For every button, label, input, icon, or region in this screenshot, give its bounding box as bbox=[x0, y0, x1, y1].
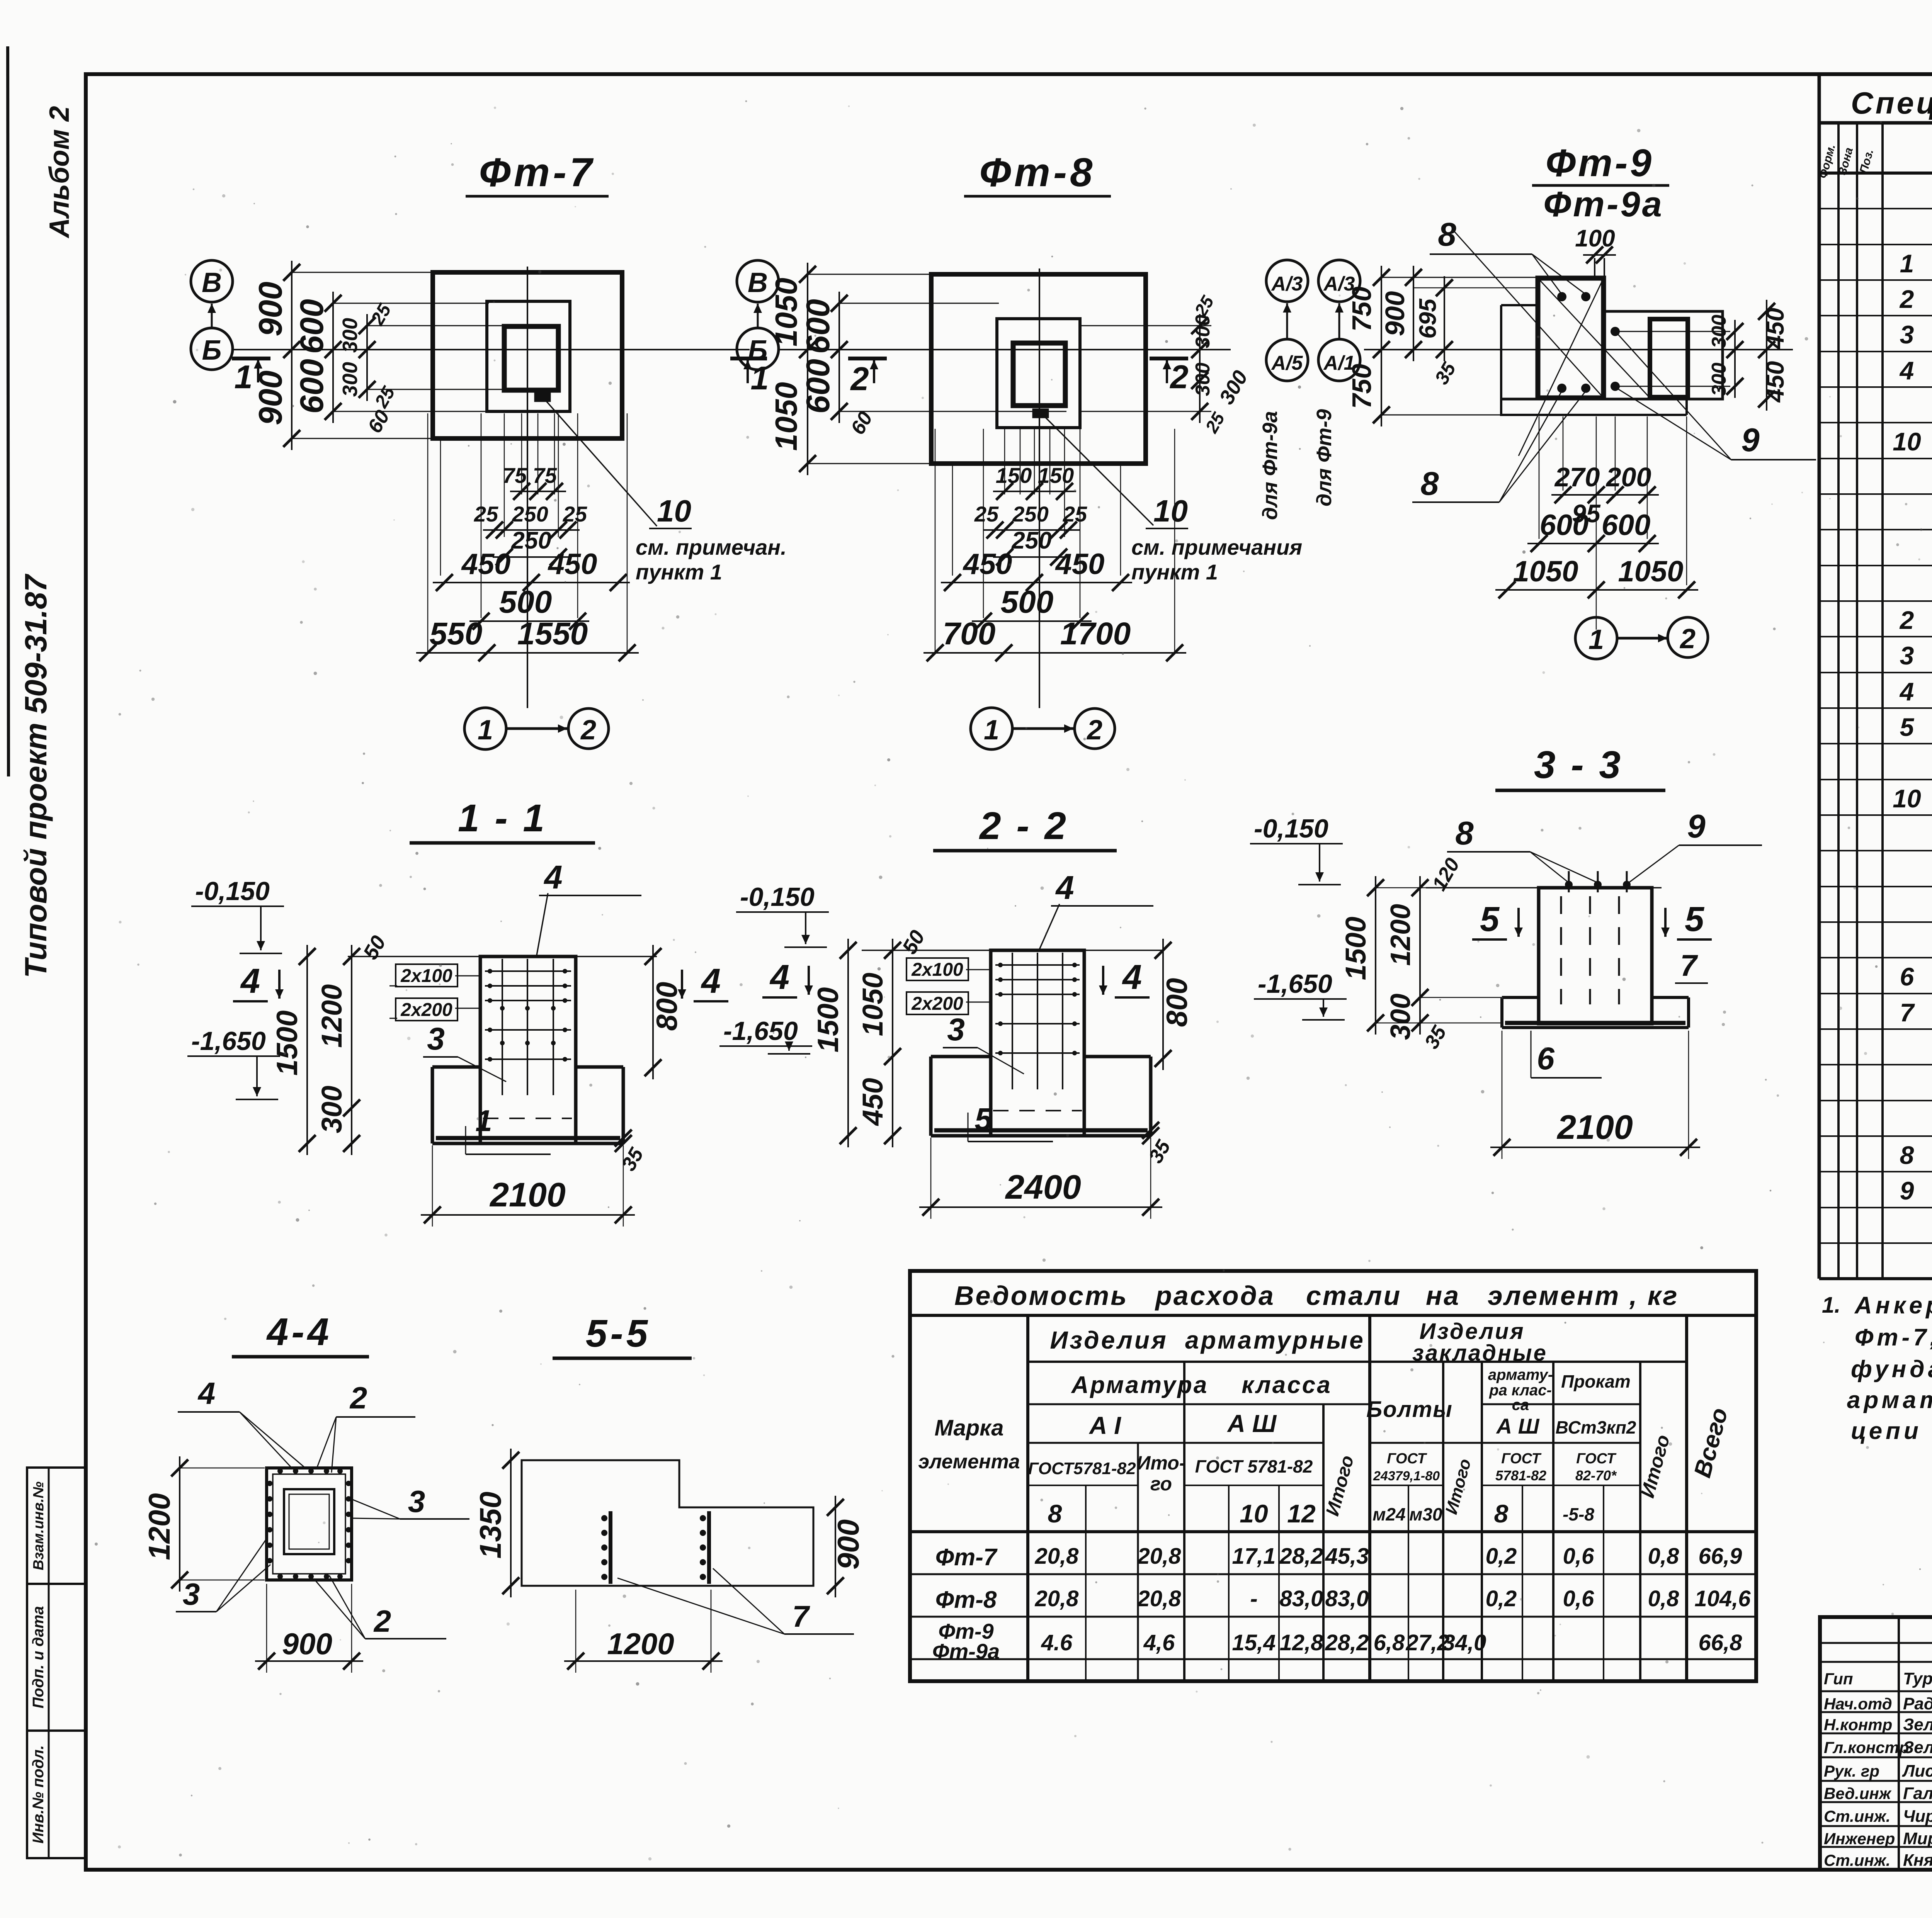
svg-text:армату-: армату- bbox=[1488, 1366, 1553, 1383]
svg-text:4: 4 bbox=[1122, 958, 1142, 997]
svg-text:1200: 1200 bbox=[607, 1627, 674, 1661]
svg-text:Фт-7: Фт-7 bbox=[479, 150, 595, 195]
svg-text:1: 1 bbox=[475, 1104, 492, 1138]
svg-text:-1,650: -1,650 bbox=[1258, 969, 1332, 999]
svg-text:Ст.инж.: Ст.инж. bbox=[1824, 1851, 1890, 1869]
svg-text:Фт-9а: Фт-9а bbox=[932, 1639, 1000, 1663]
svg-text:900: 900 bbox=[252, 282, 289, 336]
svg-text:3: 3 bbox=[947, 1012, 965, 1047]
svg-text:750: 750 bbox=[1347, 364, 1377, 409]
svg-text:Зеленский: Зеленский bbox=[1903, 1738, 1932, 1757]
5-5 outline step bbox=[522, 1460, 813, 1586]
svg-text:500: 500 bbox=[1001, 584, 1054, 620]
svg-text:10: 10 bbox=[1240, 1499, 1268, 1528]
svg-text:2: 2 bbox=[1679, 623, 1696, 654]
svg-text:1050: 1050 bbox=[769, 382, 803, 451]
svg-text:25: 25 bbox=[1063, 502, 1087, 526]
svg-text:Фт-8: Фт-8 bbox=[935, 1587, 997, 1613]
svg-text:4,6: 4,6 bbox=[1143, 1630, 1175, 1655]
svg-text:2100: 2100 bbox=[489, 1176, 566, 1214]
svg-text:3: 3 bbox=[1900, 320, 1914, 349]
svg-text:Н.контр: Н.контр bbox=[1824, 1716, 1892, 1734]
svg-text:А I: А I bbox=[1088, 1412, 1121, 1439]
Фт-7 section mark 1 right bbox=[730, 357, 767, 360]
svg-text:4: 4 bbox=[1899, 356, 1914, 385]
svg-text:3: 3 bbox=[408, 1484, 425, 1519]
svg-text:2400: 2400 bbox=[1005, 1168, 1081, 1206]
1-1 column outline bbox=[480, 956, 576, 1143]
svg-text:1050: 1050 bbox=[1513, 555, 1578, 588]
3-3 pedestal outline bbox=[1539, 888, 1652, 1024]
scan left edge artifact bbox=[8, 46, 9, 776]
svg-text:Инженер: Инженер bbox=[1824, 1830, 1895, 1848]
svg-text:пункт 1: пункт 1 bbox=[636, 560, 722, 584]
4-4 dim 1200 bbox=[180, 1468, 265, 1469]
svg-text:Подп. и дата: Подп. и дата bbox=[30, 1606, 47, 1709]
svg-text:5: 5 bbox=[1480, 900, 1500, 939]
Фт-7 axis arrow Б to В bbox=[211, 304, 213, 329]
Фт-9 axis circles А/3 А/3 bbox=[1266, 260, 1308, 302]
svg-text:Фт-8: Фт-8 bbox=[980, 150, 1096, 195]
svg-text:17,1: 17,1 bbox=[1232, 1544, 1276, 1569]
svg-text:7: 7 bbox=[1680, 948, 1698, 982]
svg-text:2: 2 bbox=[349, 1381, 367, 1415]
svg-text:ГОСТ: ГОСТ bbox=[1387, 1451, 1427, 1467]
svg-text:4: 4 bbox=[543, 859, 562, 896]
svg-text:250: 250 bbox=[511, 527, 551, 554]
svg-text:7: 7 bbox=[1900, 998, 1915, 1027]
svg-text:2х200: 2х200 bbox=[400, 1000, 452, 1020]
Фт-7 dim 550/1550 bbox=[416, 652, 639, 654]
svg-text:8: 8 bbox=[1900, 1141, 1914, 1169]
5-5 dim 1200 bbox=[575, 1590, 577, 1673]
svg-text:1: 1 bbox=[1588, 624, 1604, 655]
Фт-8 axis arrow bbox=[757, 304, 759, 329]
Фт-8 dim 700/1700 bbox=[923, 652, 1186, 654]
Фт-7 horizontal axis line bbox=[232, 349, 750, 350]
svg-text:1500: 1500 bbox=[1340, 917, 1372, 980]
svg-text:пункт 1: пункт 1 bbox=[1131, 560, 1218, 584]
1-1 left dim 1500 bbox=[306, 945, 308, 1155]
svg-text:фундамента, вертикальную арма: фундамента, вертикальную арматуру привар… bbox=[1851, 1356, 1932, 1383]
svg-text:2: 2 bbox=[580, 715, 596, 746]
2-2 left dim 1500 bbox=[847, 939, 849, 1147]
svg-text:1200: 1200 bbox=[1385, 904, 1416, 966]
svg-text:А Ш: А Ш bbox=[1496, 1414, 1540, 1438]
svg-text:Гл.констр: Гл.констр bbox=[1824, 1738, 1909, 1757]
svg-text:расхода: расхода bbox=[1155, 1281, 1275, 1311]
svg-text:300: 300 bbox=[1708, 363, 1730, 396]
svg-text:8: 8 bbox=[1494, 1499, 1509, 1528]
5-5 dim 900 right bbox=[835, 1496, 836, 1597]
svg-text:Зеленский: Зеленский bbox=[1903, 1715, 1932, 1734]
1-1 top level line bbox=[348, 956, 657, 957]
Фт-9 view circles 1-2 bbox=[1575, 617, 1617, 659]
2-2 footing dashed mesh line bbox=[993, 1110, 1082, 1111]
svg-text:В: В bbox=[748, 267, 768, 298]
svg-text:класса: класса bbox=[1242, 1372, 1332, 1398]
svg-text:закладные: закладные bbox=[1412, 1340, 1548, 1366]
5-5 rebar bar 2 bbox=[707, 1511, 711, 1584]
svg-text:900: 900 bbox=[831, 1519, 865, 1570]
svg-text:Княжицкая: Княжицкая bbox=[1903, 1851, 1932, 1870]
svg-text:10: 10 bbox=[657, 494, 691, 528]
svg-text:9: 9 bbox=[1741, 422, 1759, 459]
2-2 leader 4 top bbox=[1039, 904, 1060, 951]
svg-text:300: 300 bbox=[1708, 315, 1730, 348]
svg-text:2100: 2100 bbox=[1556, 1108, 1633, 1146]
svg-text:Мирошниченко: Мирошниченко bbox=[1903, 1829, 1932, 1848]
Фт-8 embedded plate МИ1-11 bbox=[1033, 409, 1048, 417]
svg-text:3 - 3: 3 - 3 bbox=[1534, 743, 1623, 787]
svg-text:см. примечания: см. примечания bbox=[1131, 535, 1302, 559]
2-2 footing base heavy line bbox=[934, 1128, 1148, 1133]
svg-text:4: 4 bbox=[197, 1376, 216, 1410]
2-2 top level line bbox=[862, 950, 1163, 951]
Фт-9 axis arrows bbox=[1286, 303, 1288, 340]
svg-text:-0,150: -0,150 bbox=[740, 882, 815, 912]
svg-text:0,8: 0,8 bbox=[1648, 1586, 1679, 1611]
Фт-8 horizontal axis line bbox=[779, 349, 1231, 350]
Фт-7 dim 25/250/25 bbox=[483, 529, 580, 531]
svg-text:м30: м30 bbox=[1409, 1504, 1442, 1524]
Фт-9 horizontal axis line bbox=[1364, 349, 1793, 350]
svg-text:1: 1 bbox=[478, 715, 493, 746]
4-4 outer shell bbox=[267, 1468, 352, 1580]
Фт-8 dim 150/150 bbox=[993, 491, 1076, 492]
svg-text:800: 800 bbox=[651, 982, 684, 1031]
Фт-7 dim 450/450 bbox=[433, 582, 630, 583]
svg-text:75 75: 75 75 bbox=[503, 463, 557, 488]
svg-text:элемента: элемента bbox=[918, 1451, 1020, 1473]
svg-text:-0,150: -0,150 bbox=[1254, 814, 1328, 843]
svg-text:450: 450 bbox=[857, 1078, 889, 1126]
svg-text:66,9: 66,9 bbox=[1699, 1544, 1742, 1569]
Фт-8 axis circle Б bbox=[737, 328, 779, 370]
svg-text:1 - 1: 1 - 1 bbox=[458, 797, 547, 840]
Фт-8 leader note 10 см. примечания пункт 1 bbox=[1043, 415, 1153, 525]
Фт-7 left dim 600/600 bbox=[333, 303, 489, 304]
svg-text:Фт-7, Фт-8 приварить к ве: Фт-7, Фт-8 приварить к вертикальной арма… bbox=[1855, 1324, 1932, 1351]
Фт-9 dim 270/95/200 bbox=[1551, 494, 1659, 496]
Фт-7 dim 500 bbox=[469, 620, 589, 622]
svg-text:В: В bbox=[202, 267, 222, 298]
4-4 dim 900 bbox=[266, 1584, 267, 1673]
vedomost outer frame bbox=[910, 1271, 1756, 1681]
svg-text:арматуре подошвы, для созда: арматуре подошвы, для создания непрерывн… bbox=[1847, 1387, 1932, 1413]
Фт-9 anchor bolts cage A bbox=[1557, 292, 1566, 301]
1-1 labels 2x100 2x200 bbox=[396, 964, 457, 987]
svg-text:4: 4 bbox=[769, 958, 789, 997]
svg-text:8: 8 bbox=[1438, 216, 1456, 253]
svg-text:20,8: 20,8 bbox=[1035, 1544, 1079, 1569]
Фт-8 view circles 1-2 bbox=[971, 708, 1012, 749]
Фт-7 axis circle Б bbox=[191, 328, 233, 370]
left stamp box Инв.№ подл. bbox=[27, 1731, 85, 1858]
Фт-7 section mark 1 left bbox=[232, 357, 270, 360]
svg-text:270: 270 bbox=[1554, 462, 1600, 492]
Фт-8 section mark 2 left bbox=[848, 357, 887, 360]
svg-text:Фт-7: Фт-7 bbox=[935, 1544, 998, 1571]
svg-text:20,8: 20,8 bbox=[1137, 1544, 1182, 1569]
4-4 inner cage bbox=[284, 1489, 334, 1554]
svg-text:25: 25 bbox=[563, 502, 587, 526]
svg-text:Типовой проект 509-31.87: Типовой проект 509-31.87 bbox=[19, 573, 53, 978]
3-3 left dim 1200/300 bbox=[1419, 876, 1421, 1035]
svg-text:4: 4 bbox=[1899, 677, 1914, 706]
svg-text:А/3: А/3 bbox=[1271, 273, 1303, 295]
svg-text:0,8: 0,8 bbox=[1648, 1544, 1679, 1569]
svg-text:2: 2 bbox=[373, 1604, 391, 1638]
svg-text:Прокат: Прокат bbox=[1561, 1371, 1631, 1391]
svg-text:450: 450 bbox=[1055, 548, 1105, 581]
2-2 bottom dim 2400 bbox=[930, 1138, 932, 1219]
svg-text:2: 2 bbox=[1169, 359, 1188, 396]
Фт-7 leader note 10 см. примечан. пункт 1 bbox=[544, 399, 657, 526]
svg-text:Лисунов: Лисунов bbox=[1902, 1762, 1932, 1780]
svg-text:9: 9 bbox=[1900, 1176, 1914, 1205]
svg-text:695: 695 bbox=[1415, 298, 1441, 339]
svg-text:12: 12 bbox=[1287, 1499, 1316, 1528]
svg-text:600: 600 bbox=[294, 299, 330, 354]
svg-text:0,2: 0,2 bbox=[1486, 1586, 1517, 1611]
2-2 column stirrups bbox=[995, 964, 1080, 966]
Фт-7 left dim 900/900 bbox=[292, 272, 435, 273]
svg-text:6: 6 bbox=[1537, 1041, 1555, 1076]
svg-text:Радько: Радько bbox=[1903, 1694, 1932, 1713]
svg-text:250: 250 bbox=[1011, 527, 1051, 554]
svg-text:450: 450 bbox=[1761, 361, 1789, 403]
svg-text:Ст.инж.: Ст.инж. bbox=[1824, 1807, 1890, 1825]
Фт-7 embedded plate МИ1-11 bbox=[535, 393, 550, 401]
left stamp box Подп. и дата bbox=[27, 1584, 85, 1731]
svg-text:А Ш: А Ш bbox=[1227, 1410, 1277, 1437]
svg-text:300: 300 bbox=[1192, 363, 1214, 396]
svg-text:25: 25 bbox=[474, 502, 498, 526]
Фт-9 right plate outline bbox=[1501, 311, 1723, 399]
Фт-7 dim 250 bbox=[493, 556, 570, 558]
svg-text:арматурные: арматурные bbox=[1185, 1326, 1365, 1354]
Фт-8 outer plate square bbox=[931, 274, 1146, 464]
Фт-9 lightning tab 100 bbox=[1594, 258, 1595, 277]
Фт-8 anchor cage rect bbox=[1013, 343, 1065, 406]
svg-text:1050: 1050 bbox=[769, 278, 803, 347]
svg-text:300: 300 bbox=[1192, 315, 1214, 348]
svg-text:4: 4 bbox=[1055, 870, 1074, 906]
svg-text:6: 6 bbox=[1900, 962, 1915, 991]
svg-text:для Фт-9: для Фт-9 bbox=[1313, 409, 1336, 506]
svg-text:25: 25 bbox=[974, 502, 999, 526]
svg-text:4: 4 bbox=[240, 962, 260, 1001]
svg-text:4: 4 bbox=[701, 962, 721, 1001]
svg-text:ГОСТ5781-82: ГОСТ5781-82 bbox=[1028, 1459, 1136, 1478]
svg-text:2: 2 bbox=[1899, 285, 1914, 313]
svg-text:5: 5 bbox=[975, 1102, 993, 1137]
Фт-8 bottom extension lines bbox=[983, 429, 984, 618]
Фт-9 anchor bolts cage B bbox=[1611, 327, 1620, 336]
Фт-9 left dims 750/900/695/35/750 bbox=[1381, 266, 1382, 426]
Фт-7 bottom extension lines bbox=[481, 413, 482, 618]
svg-text:-1,650: -1,650 bbox=[723, 1016, 798, 1046]
Фт-9 right dims 300/300 450/450 bbox=[1734, 320, 1736, 398]
svg-text:450: 450 bbox=[461, 548, 511, 581]
svg-text:800: 800 bbox=[1161, 978, 1194, 1027]
spec header row bbox=[1819, 172, 1932, 175]
svg-text:2х100: 2х100 bbox=[911, 960, 963, 980]
3-3 bottom dim 2100 bbox=[1502, 1031, 1503, 1159]
svg-text:Б: Б bbox=[748, 335, 768, 366]
svg-text:2: 2 bbox=[850, 361, 869, 398]
svg-text:45,3: 45,3 bbox=[1325, 1544, 1369, 1569]
svg-text:Гип: Гип bbox=[1824, 1670, 1853, 1688]
1-1 footing outline bbox=[432, 1065, 480, 1069]
svg-text:8: 8 bbox=[1455, 815, 1474, 852]
vedomost data row lines bbox=[910, 1530, 1756, 1533]
svg-text:Арматура: Арматура bbox=[1071, 1372, 1209, 1398]
svg-text:для Фт-9а: для Фт-9а bbox=[1259, 411, 1282, 520]
svg-text:1550: 1550 bbox=[517, 616, 588, 651]
svg-text:10: 10 bbox=[1893, 784, 1921, 813]
3-3 footing base heavy line bbox=[1505, 1021, 1685, 1025]
svg-text:Галактионов: Галактионов bbox=[1903, 1784, 1932, 1803]
svg-text:0,2: 0,2 bbox=[1486, 1544, 1517, 1569]
3-3 left dim 1500 bbox=[1375, 876, 1376, 1035]
2-2 left dim 1050/450 bbox=[892, 939, 893, 1147]
svg-text:9: 9 bbox=[1687, 808, 1705, 845]
svg-text:82-70*: 82-70* bbox=[1575, 1468, 1617, 1483]
svg-text:1.: 1. bbox=[1822, 1293, 1840, 1318]
svg-text:450: 450 bbox=[548, 548, 597, 581]
svg-text:1500: 1500 bbox=[271, 1010, 304, 1075]
svg-text:8: 8 bbox=[1048, 1499, 1062, 1528]
svg-text:1700: 1700 bbox=[1060, 616, 1131, 651]
Фт-8 left dim 1050/1050 bbox=[808, 274, 933, 275]
svg-text:20,8: 20,8 bbox=[1035, 1586, 1079, 1611]
Фт-7 vertical axis line bbox=[527, 267, 528, 708]
2-2 column outline bbox=[991, 950, 1084, 1136]
Фт-8 section mark 2 right bbox=[1150, 357, 1188, 360]
svg-text:А/5: А/5 bbox=[1271, 352, 1303, 374]
2-2 column vertical bars bbox=[1012, 953, 1013, 1089]
svg-text:5781-82: 5781-82 bbox=[1495, 1468, 1546, 1483]
svg-text:250: 250 bbox=[1012, 502, 1048, 526]
Фт-8 column glass rect bbox=[997, 319, 1080, 428]
svg-text:Фт-9а: Фт-9а bbox=[1543, 185, 1664, 224]
3-3 top level line bbox=[1426, 887, 1662, 888]
svg-text:Рук. гр: Рук. гр bbox=[1824, 1762, 1879, 1780]
3-3 pedestal dashed bars bbox=[1560, 896, 1562, 1004]
svg-text:Вед.инж: Вед.инж bbox=[1824, 1784, 1892, 1802]
svg-text:1200: 1200 bbox=[142, 1493, 176, 1560]
svg-text:28,2: 28,2 bbox=[1279, 1544, 1323, 1569]
svg-text:15,4: 15,4 bbox=[1232, 1630, 1276, 1655]
svg-text:1: 1 bbox=[1900, 249, 1914, 278]
svg-text:600: 600 bbox=[294, 359, 330, 414]
svg-text:750: 750 bbox=[1347, 287, 1377, 332]
svg-text:ГОСТ: ГОСТ bbox=[1501, 1451, 1541, 1467]
title block outer bbox=[1820, 1617, 1932, 1870]
Фт-7 inner dims 300/300/25/60 bbox=[367, 325, 506, 326]
svg-text:3: 3 bbox=[183, 1577, 200, 1611]
svg-text:3: 3 bbox=[427, 1021, 445, 1057]
Фт-8 right dims 25/300/300/25 and 300 bbox=[1081, 325, 1211, 326]
svg-text:Туринский: Туринский bbox=[1903, 1669, 1932, 1688]
svg-text:м24: м24 bbox=[1372, 1504, 1405, 1524]
svg-text:4.6: 4.6 bbox=[1041, 1630, 1073, 1655]
Фт-7 column glass rect bbox=[487, 301, 570, 411]
svg-text:5: 5 bbox=[1685, 900, 1705, 939]
svg-text:2: 2 bbox=[1899, 606, 1914, 634]
1-1 footing dashed mesh line bbox=[483, 1118, 572, 1119]
Фт-7 outer plate square bbox=[433, 272, 622, 438]
Фт-8 left dim 600/600 bbox=[839, 303, 999, 304]
svg-text:ГОСТ 5781-82: ГОСТ 5781-82 bbox=[1195, 1456, 1313, 1476]
svg-text:450: 450 bbox=[963, 548, 1012, 581]
svg-text:900: 900 bbox=[1380, 291, 1410, 336]
svg-text:600: 600 bbox=[800, 359, 837, 414]
svg-text:0,6: 0,6 bbox=[1563, 1544, 1594, 1569]
Фт-7 view circles 1-2 bbox=[464, 708, 506, 749]
Фт-7 anchor cage rect bbox=[504, 326, 558, 390]
2-2 labels 2x100 2x200 bbox=[906, 958, 968, 980]
svg-text:-5-8: -5-8 bbox=[1563, 1504, 1594, 1524]
svg-text:300: 300 bbox=[1385, 994, 1416, 1040]
svg-text:1: 1 bbox=[984, 715, 999, 746]
Фт-8 dim 500 bbox=[972, 620, 1092, 622]
3-3 anchor bolts on top bbox=[1568, 871, 1570, 892]
spec row grid lines bbox=[1819, 208, 1932, 209]
svg-text:стали: стали bbox=[1306, 1281, 1401, 1311]
spec table outer and title bbox=[1818, 76, 1821, 1279]
svg-text:1050: 1050 bbox=[857, 973, 889, 1036]
svg-text:го: го bbox=[1150, 1473, 1172, 1495]
svg-text:5-5: 5-5 bbox=[586, 1312, 651, 1355]
svg-text:Ведомость: Ведомость bbox=[954, 1281, 1128, 1311]
svg-text:Изделия: Изделия bbox=[1050, 1326, 1168, 1354]
svg-text:Нач.отд: Нач.отд bbox=[1824, 1695, 1892, 1713]
svg-text:28,2: 28,2 bbox=[1325, 1630, 1369, 1655]
1-1 bottom dim 2100 bbox=[432, 1145, 433, 1227]
1-1 right dim 800 bbox=[652, 945, 654, 1079]
1-1 column stirrups bbox=[485, 970, 571, 972]
Фт-9 crossing diagonal leaders bbox=[1453, 230, 1604, 398]
Фт-9 bottom extension lines bbox=[1539, 416, 1540, 539]
svg-text:-: - bbox=[1250, 1586, 1257, 1611]
svg-text:600: 600 bbox=[1602, 509, 1651, 542]
3-3 footing outline bbox=[1502, 996, 1539, 999]
svg-text:ВСт3кп2: ВСт3кп2 bbox=[1556, 1417, 1636, 1437]
svg-text:34,0: 34,0 bbox=[1443, 1630, 1486, 1655]
title block left grid bbox=[1898, 1617, 1900, 1870]
svg-text:600: 600 bbox=[1540, 509, 1589, 542]
svg-text:104,6: 104,6 bbox=[1694, 1586, 1751, 1611]
1-1 column vertical bars bbox=[502, 959, 503, 1095]
left stamp box Взам.инв.№ bbox=[27, 1468, 85, 1584]
svg-text:5: 5 bbox=[1900, 713, 1915, 741]
5-5 dim 1350 bbox=[510, 1449, 512, 1597]
svg-text:100: 100 bbox=[1575, 225, 1615, 252]
svg-text:ГОСТ: ГОСТ bbox=[1576, 1451, 1616, 1467]
svg-text:6,8: 6,8 bbox=[1374, 1630, 1405, 1655]
svg-text:2: 2 bbox=[1086, 715, 1102, 746]
svg-text:Ито-: Ито- bbox=[1137, 1452, 1186, 1474]
svg-text:300: 300 bbox=[316, 1086, 348, 1133]
svg-text:10: 10 bbox=[1153, 494, 1188, 528]
svg-text:Анкера закладного изделия М: Анкера закладного изделия МИ1-11 в фунда… bbox=[1854, 1292, 1932, 1319]
svg-text:Фт-9: Фт-9 bbox=[1546, 141, 1654, 185]
Фт-8 dim 25/250/25 bbox=[983, 529, 1080, 531]
svg-text:20,8: 20,8 bbox=[1137, 1586, 1182, 1611]
